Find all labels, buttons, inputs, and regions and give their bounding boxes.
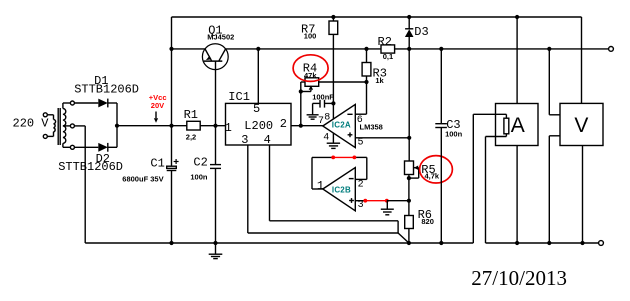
- svg-text:L200: L200: [244, 119, 273, 133]
- wire bridge output vertical: [116, 103, 118, 147]
- svg-text:1k: 1k: [375, 76, 384, 85]
- op-amp IC2B plus sign: [349, 200, 354, 202]
- svg-text:IC1: IC1: [228, 90, 250, 104]
- meter A box: [516, 17, 518, 104]
- svg-text:IC2A: IC2A: [332, 121, 351, 130]
- resistor shunt (A meter): [504, 118, 509, 134]
- op-amp IC2B: [323, 168, 356, 211]
- svg-text:3: 3: [358, 200, 364, 211]
- wire V meter sense+: [548, 49, 550, 115]
- svg-text:LM358: LM358: [360, 123, 383, 132]
- node junction R4 wiper: [299, 89, 303, 93]
- node junction pin2/R4: [299, 124, 303, 128]
- svg-text:A: A: [511, 114, 525, 137]
- wire V meter bottom: [582, 146, 584, 244]
- svg-text:4: 4: [323, 132, 329, 143]
- svg-text:C2: C2: [193, 156, 207, 170]
- annotation red ellipse R4: [293, 55, 328, 82]
- node junction R1/Q1 base/C2: [213, 124, 217, 128]
- wire top rail +V: [172, 16, 582, 18]
- wire pin4 to ground: [332, 133, 334, 143]
- resistor R3 1k: [366, 49, 368, 63]
- transformer primary winding: [54, 120, 56, 132]
- svg-text:8: 8: [324, 112, 330, 123]
- ground symbol IC2B input: [386, 201, 388, 209]
- wire red pin3 segment: [365, 200, 387, 202]
- node junction rail/Vcc: [169, 124, 173, 128]
- wire IC2B feedback loop: [312, 188, 323, 190]
- svg-text:2: 2: [358, 179, 364, 190]
- terminal output negative: [599, 241, 604, 246]
- svg-text:5: 5: [253, 102, 260, 116]
- op-amp minus sign: [347, 113, 352, 115]
- svg-text:6800uF 35V: 6800uF 35V: [122, 174, 163, 183]
- op-amp IC2A LM358: [323, 104, 356, 147]
- svg-text:220 V: 220 V: [13, 116, 50, 130]
- wire pin6 stub: [355, 113, 366, 115]
- capacitor C3 100n: [440, 49, 442, 124]
- wire secondary leads: [62, 103, 64, 109]
- transformer secondary winding: [63, 109, 66, 144]
- wire IC1 pin4: [269, 145, 271, 221]
- resistor R2 0,1: [381, 45, 395, 53]
- wire center tap to ground bus: [74, 125, 85, 127]
- diode D1: [74, 102, 98, 104]
- svg-text:27/10/2013: 27/10/2013: [471, 266, 567, 290]
- svg-text:MJ4502: MJ4502: [207, 32, 234, 41]
- node junction C2/ground bus: [213, 241, 217, 245]
- svg-text:20V: 20V: [151, 101, 164, 110]
- svg-text:R1: R1: [184, 108, 198, 122]
- wire A meter bottom: [516, 146, 518, 244]
- wire R7 to op-amp pin8: [332, 34, 334, 119]
- svg-text:100nF: 100nF: [312, 93, 334, 102]
- svg-text:IC2B: IC2B: [332, 186, 351, 195]
- node junction output/V-meter: [547, 47, 551, 51]
- diode D3: [408, 17, 410, 29]
- svg-text:C1: C1: [150, 157, 164, 171]
- node junction pin5/R5: [407, 136, 411, 140]
- wire left vertical (rail to ground bus through C1): [171, 17, 173, 166]
- node junction R3 bottom: [364, 80, 368, 84]
- node junction R3 top: [364, 47, 368, 51]
- terminal output positive: [609, 47, 614, 52]
- node junction D3/rail: [407, 15, 411, 19]
- svg-text:7: 7: [318, 116, 324, 127]
- svg-text:R2: R2: [378, 35, 392, 49]
- node junction 100nF/pin8: [331, 101, 335, 105]
- svg-text:100n: 100n: [445, 130, 463, 139]
- svg-text:4,7k: 4,7k: [425, 172, 440, 181]
- wire red feedback segment: [333, 156, 354, 158]
- node junction C1/ground bus: [169, 241, 173, 245]
- svg-text:1: 1: [225, 121, 232, 135]
- wire V meter sense-: [549, 135, 560, 137]
- wire +Vcc rail: [117, 125, 187, 127]
- wire ground bus right (output negative): [486, 242, 599, 244]
- transformer secondary terminals: [70, 101, 74, 105]
- node junction D3/output line: [407, 47, 411, 51]
- capacitor C1 6800uF: [167, 166, 177, 168]
- svg-text:47k: 47k: [304, 71, 317, 80]
- svg-text:1: 1: [317, 179, 324, 193]
- node junction R7/rail: [331, 15, 335, 19]
- wire pin3 stub: [355, 200, 365, 202]
- svg-text:5: 5: [358, 138, 364, 149]
- wire ground bus left: [84, 126, 86, 243]
- wire IC1 pin5: [257, 49, 259, 104]
- wire primary leads: [47, 114, 53, 116]
- wire pin3 to R5/R6 node: [387, 200, 409, 202]
- svg-text:100n: 100n: [190, 172, 208, 181]
- svg-text:STTB1206D: STTB1206D: [58, 160, 123, 174]
- trimmer R4 47k: [305, 78, 319, 87]
- wire shunt bottom to output bus: [505, 134, 507, 137]
- svg-text:2,2: 2,2: [186, 132, 196, 141]
- ground symbol 100nF: [312, 103, 314, 114]
- resistor R1: [187, 121, 200, 130]
- meter V box: [581, 17, 583, 103]
- node junction rail/emitter: [169, 47, 173, 51]
- wire Q1 base to pin1 node: [215, 61, 217, 126]
- node junction C3 top: [439, 47, 443, 51]
- svg-text:2: 2: [280, 117, 287, 131]
- wire IC1 pin2 to op-amp: [291, 125, 323, 127]
- wire R2 to D3 node: [395, 48, 611, 50]
- node junction bridge output: [115, 124, 119, 128]
- node junction C3 bottom: [439, 241, 443, 245]
- capacitor C2 100n: [215, 126, 217, 165]
- transformer TR1 primary terminals: [43, 113, 47, 117]
- wire shunt top to ground bus: [505, 114, 507, 118]
- op-amp plus sign: [348, 134, 353, 136]
- op IC1 L200 regulator: [226, 103, 292, 145]
- wire pin5 stub: [355, 137, 409, 139]
- diode D2: [74, 146, 98, 148]
- node junction R5/pin3 net: [407, 199, 411, 203]
- wire Q1 collector line: [226, 48, 381, 50]
- wire IC1 pin3 to ground node: [247, 145, 249, 233]
- svg-text:100: 100: [304, 31, 317, 40]
- node junction R6/ground bus: [407, 241, 411, 245]
- annotation red ellipse R5: [420, 156, 453, 183]
- wire R1 to IC1 pin1: [200, 125, 225, 127]
- node junction collector/pin5: [256, 47, 260, 51]
- svg-text:D3: D3: [414, 25, 428, 39]
- op-amp IC2B minus sign: [349, 178, 354, 180]
- svg-text:V: V: [574, 114, 588, 137]
- node junction R5 bottom/wiper: [407, 176, 411, 180]
- svg-text:6: 6: [357, 115, 363, 126]
- transistor Q1 MJ4502: [202, 44, 228, 70]
- ground symbol main: [215, 243, 217, 254]
- svg-text:0,1: 0,1: [383, 52, 393, 61]
- ground symbol IC2A: [327, 142, 340, 144]
- potentiometer R5 4,7k: [408, 49, 410, 161]
- svg-text:820: 820: [421, 217, 434, 226]
- resistor R7: [332, 17, 334, 21]
- resistor R6 820: [405, 216, 414, 229]
- transformer core: [57, 108, 59, 145]
- svg-text:STTB1206D: STTB1206D: [74, 82, 139, 96]
